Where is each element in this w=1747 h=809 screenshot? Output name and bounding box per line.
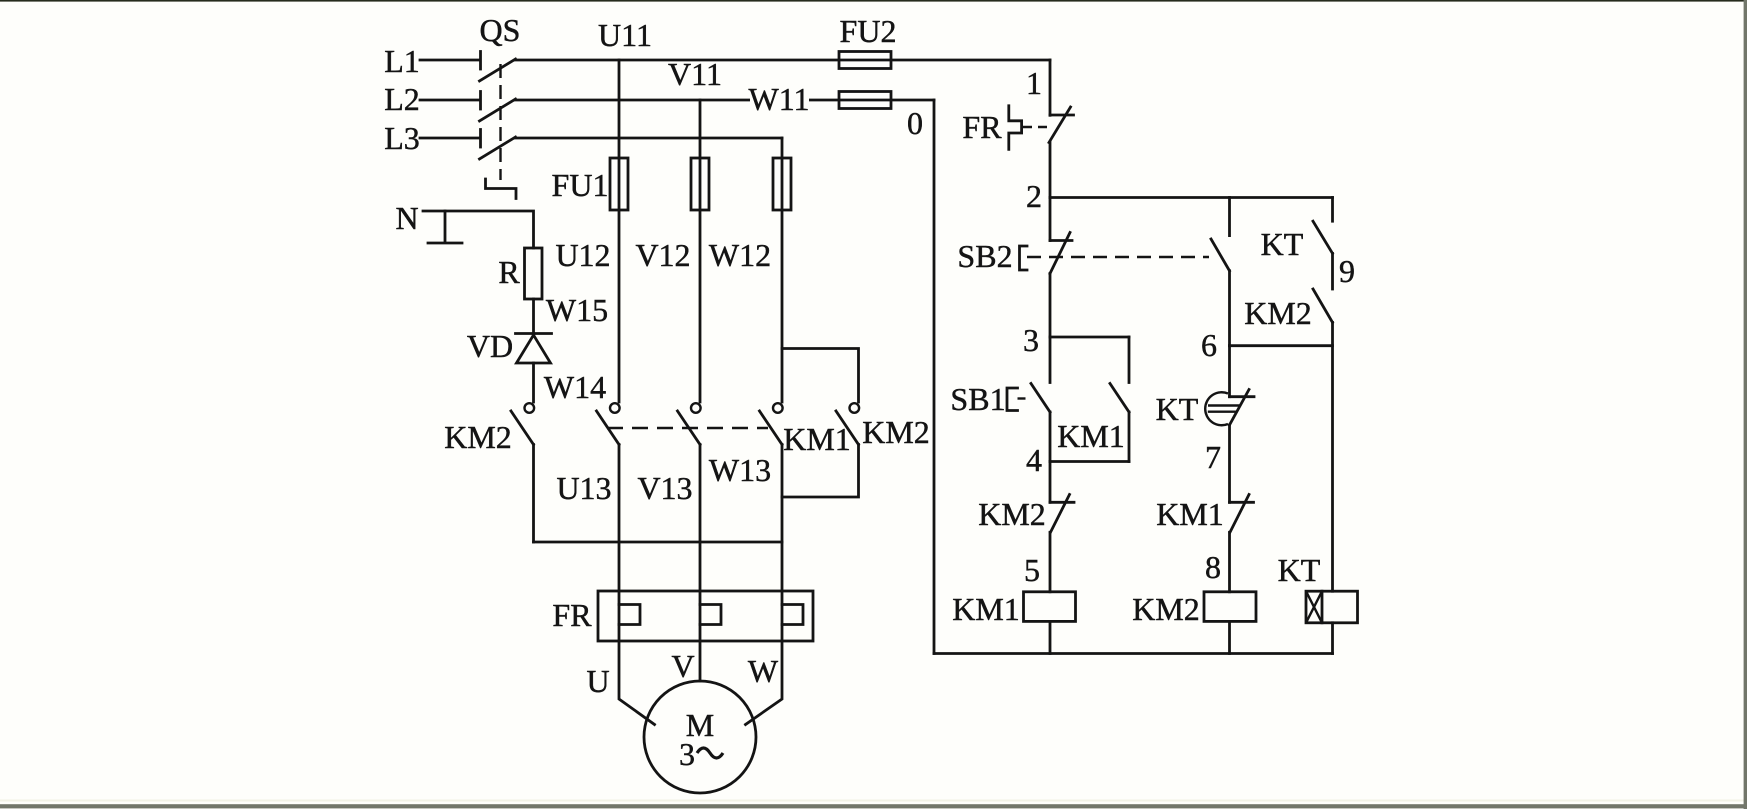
switch QS pole 1 fixed contact (479, 52, 482, 70)
wire 5 (1049, 532, 1052, 592)
svg-text:U: U (586, 663, 609, 699)
svg-text:V: V (671, 648, 694, 684)
wire L2 stub (420, 99, 480, 102)
coil KT (1306, 591, 1358, 623)
contactor KM1 latch branch wire (1128, 337, 1131, 383)
svg-text:KM1: KM1 (783, 421, 851, 457)
wire SB2 NO to 6 (1228, 271, 1231, 346)
wire 3 to SB1 (1049, 337, 1052, 383)
timer KT delayed NC blade (1230, 390, 1250, 426)
svg-text:KM2: KM2 (978, 496, 1046, 532)
FR heater W (782, 605, 803, 625)
contactor KM1 NC blade (1230, 495, 1249, 533)
svg-text:3: 3 (679, 736, 695, 772)
coil KT divider (1321, 591, 1324, 623)
button SB1 actuator bracket (1007, 388, 1018, 411)
thermal relay FR body (598, 591, 813, 641)
svg-text:L2: L2 (384, 81, 420, 117)
timer KT delayed NC bar (1230, 395, 1255, 398)
resistor R (525, 248, 543, 299)
wire N (423, 211, 534, 248)
svg-text:U13: U13 (556, 470, 611, 506)
FR heater U (619, 605, 640, 625)
svg-text:0: 0 (907, 105, 923, 141)
relay FR NC contact blade (1049, 107, 1071, 143)
svg-text:KM2: KM2 (1132, 591, 1200, 627)
svg-text:KT: KT (1156, 391, 1199, 427)
contactor KM1 main V blade (678, 411, 701, 445)
wire KM2 NO to KT coil (1331, 322, 1334, 591)
wire 2 to KT NO (1331, 198, 1334, 222)
svg-text:FU1: FU1 (552, 167, 609, 203)
svg-text:KM2: KM2 (1244, 295, 1312, 331)
coil KM1 (1024, 592, 1076, 622)
svg-text:KM2: KM2 (862, 414, 930, 450)
svg-text:R: R (498, 254, 520, 290)
svg-text:W15: W15 (546, 292, 608, 328)
wire KM1 latch to 4 (1128, 412, 1131, 462)
wire 7 (1228, 425, 1231, 502)
relay FR NC contact bar (1050, 114, 1074, 117)
node W11 (750, 88, 809, 112)
contactor KM2 brake contact blade (511, 411, 534, 445)
svg-text:SB2: SB2 (957, 238, 1012, 274)
wire U11 (618, 60, 621, 402)
wire node 9 (1331, 253, 1334, 289)
svg-text:KT: KT (1278, 552, 1321, 588)
switch QS pole 3 blade (480, 137, 516, 159)
wire KM1 coil to rail (1049, 621, 1052, 653)
switch QS pole 2 fixed contact (479, 92, 482, 110)
wire brake link (534, 541, 783, 544)
svg-text:W14: W14 (544, 369, 606, 405)
wire L1 to FU2 (516, 59, 1051, 62)
svg-text:QS: QS (480, 12, 521, 48)
svg-text:KM1: KM1 (1156, 496, 1224, 532)
svg-text:SB1: SB1 (950, 381, 1005, 417)
button SB2 NC bar (1050, 239, 1072, 242)
contactor KM1 main U terminal (610, 403, 620, 413)
wire V13 (699, 445, 702, 682)
timer KT NO blade (1313, 221, 1333, 253)
fuse FU2a (839, 52, 891, 69)
diode VD (516, 334, 552, 364)
button SB1 NO blade (1031, 384, 1050, 413)
contactor KM2 NC blade (1051, 495, 1070, 533)
fuse FU1a (610, 158, 628, 210)
contactor KM1 latch NO blade (1110, 384, 1129, 413)
contactor KM1 main W blade (760, 411, 783, 445)
wire node 4 rail (1050, 460, 1129, 463)
motor M1 (644, 681, 756, 793)
button SB2 linkage dashed (1027, 256, 1209, 258)
wire bottom rail (934, 652, 1333, 655)
contactor KM1 main linkage dashed (607, 427, 768, 429)
svg-text:W11: W11 (748, 81, 809, 117)
svg-text:FR: FR (962, 109, 1002, 145)
N terminal (428, 211, 462, 243)
svg-text:W12: W12 (709, 237, 771, 273)
button SB1 linkage dashed (1018, 397, 1031, 399)
switch QS pole 1 blade (480, 59, 516, 81)
wire KM2 right to W13 (782, 445, 859, 498)
wire L3 stub (420, 137, 480, 140)
wire V11 (699, 100, 702, 402)
wire KM2 coil to rail (1228, 621, 1231, 653)
wire 2 to SB2 (1049, 198, 1052, 241)
wire L3 to W11 (516, 137, 783, 140)
wire W13 (746, 445, 783, 725)
wire KM2 brake to link (532, 445, 535, 543)
svg-text:VD: VD (467, 328, 513, 364)
wire node 3 branch (1050, 336, 1129, 339)
wire U13 (619, 445, 655, 725)
wire 2 to SB2 NO (1228, 198, 1231, 236)
svg-text:3: 3 (1023, 322, 1039, 358)
relay FR heater element symbol (1009, 106, 1022, 150)
wire W11 (781, 138, 784, 402)
wire SB1 to 4 (1049, 412, 1052, 462)
contactor KM1 NC bar (1230, 501, 1254, 504)
svg-text:V11: V11 (668, 56, 722, 92)
svg-text:V12: V12 (635, 237, 690, 273)
svg-text:8: 8 (1205, 549, 1221, 585)
fuse FU1c (773, 158, 791, 210)
wire R to VD (532, 299, 535, 333)
svg-text:KM1: KM1 (1057, 418, 1125, 454)
svg-text:KT: KT (1261, 226, 1304, 262)
switch QS pole 3 fixed contact (479, 130, 482, 148)
svg-text:W: W (748, 653, 779, 689)
contactor KM1 main U blade (597, 411, 620, 445)
svg-text:1: 1 (1026, 65, 1042, 101)
contactor KM2 NO blade (1313, 289, 1333, 322)
svg-text:N: N (395, 200, 418, 236)
svg-text:4: 4 (1026, 442, 1042, 478)
wire KT coil to rail (1331, 623, 1334, 654)
svg-text:V13: V13 (637, 470, 692, 506)
svg-text:FR: FR (552, 597, 592, 633)
switch QS linkage dashed (499, 64, 501, 180)
wire W12 branch to KM2 right (782, 349, 859, 403)
contactor KM2 right terminal (850, 403, 860, 413)
wire node 2 rail (1050, 196, 1333, 199)
switch QS handle (486, 179, 517, 199)
fuse FU2b (839, 92, 891, 109)
wire 6 to KT (1228, 346, 1231, 397)
button SB2 actuator bracket (1020, 246, 1028, 270)
wire 8 (1228, 532, 1231, 592)
svg-text:FU2: FU2 (840, 13, 897, 49)
svg-text:L1: L1 (384, 43, 420, 79)
relay FR linkage dashed (1023, 126, 1047, 128)
wire net 0 vertical (933, 100, 936, 654)
fuse FU1b (691, 158, 709, 210)
svg-text:KM2: KM2 (444, 419, 512, 455)
svg-text:L3: L3 (384, 120, 420, 156)
svg-text:9: 9 (1339, 253, 1355, 289)
switch QS pole 2 blade (480, 99, 516, 121)
svg-text:6: 6 (1201, 327, 1217, 363)
svg-text:2: 2 (1026, 178, 1042, 214)
svg-text:KM1: KM1 (952, 591, 1020, 627)
contactor KM2 right blade (836, 411, 859, 445)
contactor KM2 NC bar (1050, 501, 1074, 504)
svg-text:W13: W13 (709, 452, 771, 488)
FR heater V (700, 605, 721, 625)
svg-text:U11: U11 (598, 17, 652, 53)
timer KT delay cup arc (1205, 392, 1228, 425)
button SB2 NO blade (1211, 239, 1230, 271)
wire L1 stub (420, 59, 480, 62)
svg-text:5: 5 (1024, 552, 1040, 588)
wire node1 (1049, 60, 1052, 115)
wire 1 to 2 (1049, 143, 1052, 198)
wire 4 to KM2 NC (1049, 462, 1052, 503)
button SB2 NC blade (1050, 233, 1070, 274)
timer KT delay cup lines (1208, 406, 1240, 412)
coil KM2 (1204, 592, 1256, 622)
wire SB2 to 3 (1049, 274, 1052, 338)
contactor KM2 brake contact terminal (525, 403, 535, 413)
contactor KM1 main W terminal (773, 403, 783, 413)
contactor KM1 main V terminal (691, 403, 701, 413)
wire node 6 rail (1230, 344, 1333, 347)
wire VD to KM2 contact (532, 363, 535, 402)
coil KT X mark (1306, 591, 1322, 623)
svg-text:7: 7 (1205, 439, 1221, 475)
wire L2 to FU2 (516, 99, 935, 102)
svg-text:U12: U12 (555, 237, 610, 273)
